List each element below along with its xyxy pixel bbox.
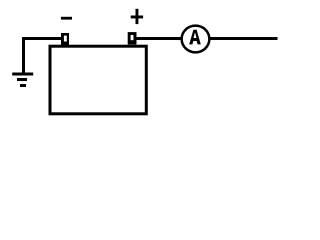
battery [50,46,146,114]
ammeter A [182,26,210,53]
wire [136,37,183,40]
wire [22,37,62,40]
battery negative terminal [61,33,69,45]
wire [210,37,278,40]
label - (negative) [61,17,72,20]
label + (positive) [131,9,143,24]
battery positive terminal [128,32,137,44]
ground [12,39,33,86]
